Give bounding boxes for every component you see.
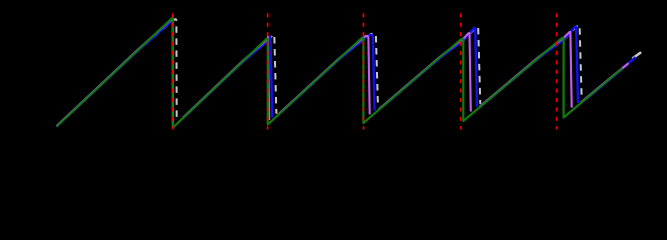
red dashed vertical 4: [460, 13, 462, 129]
blue trace: [57, 18, 636, 126]
red dashed vertical 5: [556, 13, 558, 129]
purple trace: [57, 18, 629, 126]
grey trace end stub: [633, 53, 640, 58]
red dashed vertical 1: [172, 13, 174, 129]
green trace: [57, 18, 623, 128]
grey dashed trace: [57, 19, 632, 126]
red dashed vertical 2: [267, 13, 269, 129]
red dashed vertical 3: [363, 13, 365, 129]
